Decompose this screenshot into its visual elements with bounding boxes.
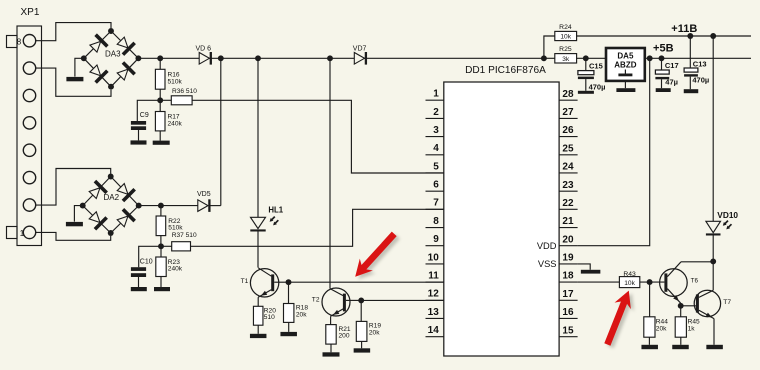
op-amp U1 : IC DD1 PIC16F876A body xyxy=(444,65,559,356)
ground R21 xyxy=(323,352,340,356)
connector XP1 pin circle 7 xyxy=(23,62,35,74)
pin 6 stub xyxy=(426,180,444,192)
svg-text:19: 19 xyxy=(562,253,574,264)
ground R19 xyxy=(354,348,371,352)
wire rail to T2 collector xyxy=(329,58,331,288)
pin 25 stub xyxy=(559,143,578,154)
pin 11 stub xyxy=(426,271,444,283)
wire T6 emitter to T7 base xyxy=(681,305,696,307)
svg-text:470µ: 470µ xyxy=(589,83,606,92)
node R16-R36-R17-C9 xyxy=(157,97,163,103)
ground C9 xyxy=(131,140,147,144)
node rail-VD5 xyxy=(218,55,224,61)
svg-text:510k: 510k xyxy=(168,78,183,85)
svg-text:XP1: XP1 xyxy=(21,7,40,18)
pin 18 stub xyxy=(559,271,578,282)
connector XP1 pin circle 3 xyxy=(23,171,35,183)
svg-text:12: 12 xyxy=(428,289,440,300)
svg-text:14: 14 xyxy=(428,325,440,336)
pin 17 stub xyxy=(559,289,578,300)
svg-text:VSS: VSS xyxy=(538,259,557,269)
wire +11B to VD10 xyxy=(712,36,714,221)
svg-text:VDD: VDD xyxy=(537,241,557,251)
bridge rectifier DA2 xyxy=(80,174,142,236)
resistor R44 20k xyxy=(644,282,668,345)
svg-text:VD5: VD5 xyxy=(197,191,211,198)
pin 7 stub xyxy=(426,198,444,210)
svg-text:T6: T6 xyxy=(691,277,699,284)
svg-text:R24: R24 xyxy=(559,24,572,31)
svg-text:10: 10 xyxy=(428,252,440,263)
ground at DA2 left corner xyxy=(66,206,83,227)
svg-text:9: 9 xyxy=(433,234,439,245)
LED HL1 xyxy=(250,206,283,232)
svg-text:21: 21 xyxy=(562,216,574,227)
resistor R36 510 xyxy=(160,88,197,105)
wire VD10 to T6 collector node xyxy=(712,236,714,262)
pin 26 stub xyxy=(559,125,578,136)
connector XP1 body xyxy=(7,7,42,245)
wire T7 emitter to ground xyxy=(713,319,715,345)
resistor R22 510k xyxy=(156,206,183,236)
svg-text:10k: 10k xyxy=(560,34,571,41)
wire rail to HL1 xyxy=(257,58,259,217)
node rail-T2 xyxy=(327,55,333,61)
svg-text:8: 8 xyxy=(17,37,22,46)
capacitor C17 47u xyxy=(655,58,678,88)
ground R20 xyxy=(250,334,267,338)
capacitor C9 xyxy=(131,100,160,140)
pin 15 stub xyxy=(559,325,578,336)
svg-text:VD10: VD10 xyxy=(717,210,738,220)
svg-text:20: 20 xyxy=(562,234,574,245)
transistor T1 xyxy=(241,268,289,298)
pin 13 stub xyxy=(426,307,444,319)
wire +11B rail xyxy=(577,35,751,37)
svg-text:C9: C9 xyxy=(140,112,149,119)
ground R18 xyxy=(280,332,297,336)
ground R17 xyxy=(153,141,170,145)
wire R43 to T6 base xyxy=(640,281,665,283)
pin 5 stub xyxy=(426,161,444,173)
pin 22 stub xyxy=(559,198,578,209)
node T6 emitter T7 base R45 xyxy=(678,303,684,309)
pin 27 stub xyxy=(559,107,578,118)
ground C15 xyxy=(578,91,594,94)
resistor R37 510 xyxy=(161,232,197,251)
svg-text:R36 510: R36 510 xyxy=(172,88,197,95)
node +5B C17 xyxy=(659,55,665,61)
svg-text:24: 24 xyxy=(562,162,574,173)
pin 16 stub xyxy=(559,307,578,318)
svg-text:27: 27 xyxy=(562,107,574,118)
svg-text:4: 4 xyxy=(433,143,439,154)
resistor R19 20k xyxy=(356,300,381,348)
wire T2 base to IC pin12 xyxy=(361,299,444,301)
node R22-R37-R23-C10 xyxy=(158,243,164,249)
node VD5-R22 xyxy=(158,203,164,209)
svg-text:510k: 510k xyxy=(168,225,183,232)
svg-text:200: 200 xyxy=(339,333,350,340)
svg-text:R37 510: R37 510 xyxy=(172,232,197,239)
svg-text:R43: R43 xyxy=(623,271,636,278)
wire R37 to IC pin7 xyxy=(191,209,444,246)
svg-text:HL1: HL1 xyxy=(268,206,283,215)
pin 3 stub xyxy=(426,125,444,137)
pin 9 stub xyxy=(426,234,444,246)
pin 20 stub xyxy=(559,234,578,245)
connector XP1 pin circle 4 xyxy=(23,144,35,156)
svg-text:DA3: DA3 xyxy=(105,50,121,59)
node T2 base / R19 xyxy=(358,297,364,303)
wire R25 to DA5 xyxy=(577,57,606,59)
svg-text:+5B: +5B xyxy=(653,43,674,55)
pin 24 stub xyxy=(559,162,578,173)
svg-text:5: 5 xyxy=(433,161,439,172)
svg-text:23: 23 xyxy=(562,180,574,191)
svg-text:T2: T2 xyxy=(312,296,320,303)
LED VD10 xyxy=(706,210,739,235)
node T6 collector VD10 T7 xyxy=(710,258,716,264)
svg-text:R25: R25 xyxy=(559,46,572,53)
pin 2 stub xyxy=(426,107,444,119)
svg-text:DA2: DA2 xyxy=(104,193,120,202)
svg-text:240k: 240k xyxy=(168,120,183,127)
diode VD6 xyxy=(196,45,212,64)
node rail-R16 xyxy=(157,55,163,61)
svg-text:DD1 PIC16F876A: DD1 PIC16F876A xyxy=(465,65,546,76)
svg-text:25: 25 xyxy=(562,143,574,154)
svg-text:18: 18 xyxy=(562,271,574,282)
svg-text:T7: T7 xyxy=(723,299,731,306)
connector XP1 pin circle 8 xyxy=(23,35,35,47)
wire +5B rail xyxy=(645,57,751,59)
ground R44 xyxy=(641,345,658,349)
svg-text:13: 13 xyxy=(428,307,440,318)
svg-text:15: 15 xyxy=(562,325,574,336)
svg-text:47µ: 47µ xyxy=(665,78,678,87)
connector XP1 pin circle 2 xyxy=(23,199,35,211)
capacitor C10 xyxy=(131,246,161,287)
ground R23 xyxy=(154,287,170,291)
wire XP1 pin8 to DA3 top xyxy=(35,23,111,41)
diode VD7 xyxy=(353,45,367,64)
node +5B pin20 xyxy=(647,55,653,61)
ground R45 xyxy=(672,345,689,349)
svg-text:470µ: 470µ xyxy=(692,76,709,85)
voltage regulator DA5 ABZD xyxy=(606,48,645,81)
node R43 R44 T6 xyxy=(647,279,653,285)
svg-text:16: 16 xyxy=(562,307,574,318)
ground C17 xyxy=(656,88,671,92)
svg-text:240k: 240k xyxy=(168,266,183,273)
svg-text:26: 26 xyxy=(562,125,574,136)
capacitor C13 470u xyxy=(684,36,709,89)
resistor R45 1k xyxy=(675,306,700,345)
ground VSS xyxy=(581,270,601,274)
node +11B VD10 xyxy=(710,33,716,39)
pin 4 stub xyxy=(426,143,444,155)
svg-text:8: 8 xyxy=(433,216,439,227)
wire DA5 to ground xyxy=(624,81,626,88)
svg-text:20k: 20k xyxy=(656,326,667,333)
resistor R20 510 xyxy=(253,297,276,334)
svg-text:3k: 3k xyxy=(562,56,570,63)
wire R36 to IC pin5 xyxy=(192,100,444,173)
pin 23 stub xyxy=(559,180,578,191)
svg-text:VD7: VD7 xyxy=(353,45,367,52)
resistor R21 200 xyxy=(326,316,351,352)
wire T1 base to IC pin11 xyxy=(289,281,444,283)
svg-text:28: 28 xyxy=(562,89,574,100)
svg-text:2: 2 xyxy=(433,107,439,118)
wire vertical VD5 to top rail xyxy=(220,58,222,205)
wire XP1 pin2 to DA2 top xyxy=(35,169,110,206)
wire HL1 to T1 collector xyxy=(257,232,259,268)
pin 21 stub xyxy=(559,216,578,227)
node +11B C13 xyxy=(687,33,693,39)
resistor R16 510k xyxy=(155,58,182,89)
diode VD5 xyxy=(197,191,211,212)
svg-text:510: 510 xyxy=(264,314,275,321)
svg-text:6: 6 xyxy=(433,180,439,191)
wire top rail from DA3 to R24 R25 junction xyxy=(138,57,544,59)
pin 1 stub xyxy=(426,89,444,101)
transistor T2 xyxy=(312,288,361,317)
connector XP1 pin circle 5 xyxy=(23,117,35,129)
wire DA2 to VD5 xyxy=(139,205,198,207)
wire VSS pin19 to ground xyxy=(578,264,591,270)
transistor T7 xyxy=(694,261,731,319)
pin 10 stub xyxy=(426,252,444,264)
svg-text:20k: 20k xyxy=(369,329,380,336)
ground DA5 xyxy=(616,88,635,92)
pin 28 stub xyxy=(559,89,578,100)
svg-text:+11B: +11B xyxy=(671,23,697,35)
ground C10 xyxy=(131,287,147,291)
svg-text:C15: C15 xyxy=(589,61,603,70)
node T1 base / R18 xyxy=(286,279,292,285)
svg-text:DA5: DA5 xyxy=(617,52,634,61)
svg-text:11: 11 xyxy=(428,271,439,282)
resistor R18 20k xyxy=(284,282,309,332)
pin 19 stub xyxy=(559,253,578,264)
bridge rectifier DA3 xyxy=(81,28,141,90)
wire VD5 to rail vertical xyxy=(209,205,220,207)
svg-text:17: 17 xyxy=(562,289,574,300)
wire VDD pin20 to +5B xyxy=(578,58,650,245)
svg-text:20k: 20k xyxy=(296,311,307,318)
svg-text:T1: T1 xyxy=(241,278,249,285)
connector XP1 pin circle 6 xyxy=(23,89,35,101)
svg-text:1: 1 xyxy=(433,89,439,100)
red arrow pointing at R43 xyxy=(599,287,640,350)
ground at DA3 left corner xyxy=(66,58,83,81)
svg-text:1k: 1k xyxy=(688,326,696,333)
resistor R25 3k xyxy=(544,46,577,63)
red arrow pointing at T2 xyxy=(349,228,404,285)
svg-text:C10: C10 xyxy=(140,258,153,265)
node C15 xyxy=(583,55,589,61)
wire XP1 pin7 to DA3 bottom xyxy=(35,68,111,96)
resistor R24 10k xyxy=(544,24,577,58)
wire pin18 to R43 xyxy=(578,281,620,283)
wire XP1 pin1 to DA2 bottom xyxy=(35,232,110,240)
transistor T6 xyxy=(660,262,714,303)
node rail R24 R25 xyxy=(541,55,547,61)
pin 12 stub xyxy=(426,289,444,301)
svg-text:VD 6: VD 6 xyxy=(196,45,212,52)
ground T7 xyxy=(706,345,723,349)
resistor R43 10k xyxy=(619,271,639,288)
svg-text:22: 22 xyxy=(562,198,574,209)
resistor R23 240k xyxy=(156,246,183,287)
svg-text:7: 7 xyxy=(433,198,439,209)
connector XP1 pin circle 1 xyxy=(23,226,35,238)
capacitor C15 470u xyxy=(578,58,606,91)
ground C13 xyxy=(684,89,699,93)
pin 14 stub xyxy=(426,325,444,337)
svg-text:C17: C17 xyxy=(665,61,679,70)
pin 8 stub xyxy=(426,216,444,228)
resistor R17 240k xyxy=(155,100,182,140)
node rail-HL1 xyxy=(255,55,261,61)
svg-text:10k: 10k xyxy=(624,280,635,287)
svg-text:ABZD: ABZD xyxy=(614,61,636,70)
svg-text:C13: C13 xyxy=(693,60,707,69)
svg-text:3: 3 xyxy=(433,125,439,136)
